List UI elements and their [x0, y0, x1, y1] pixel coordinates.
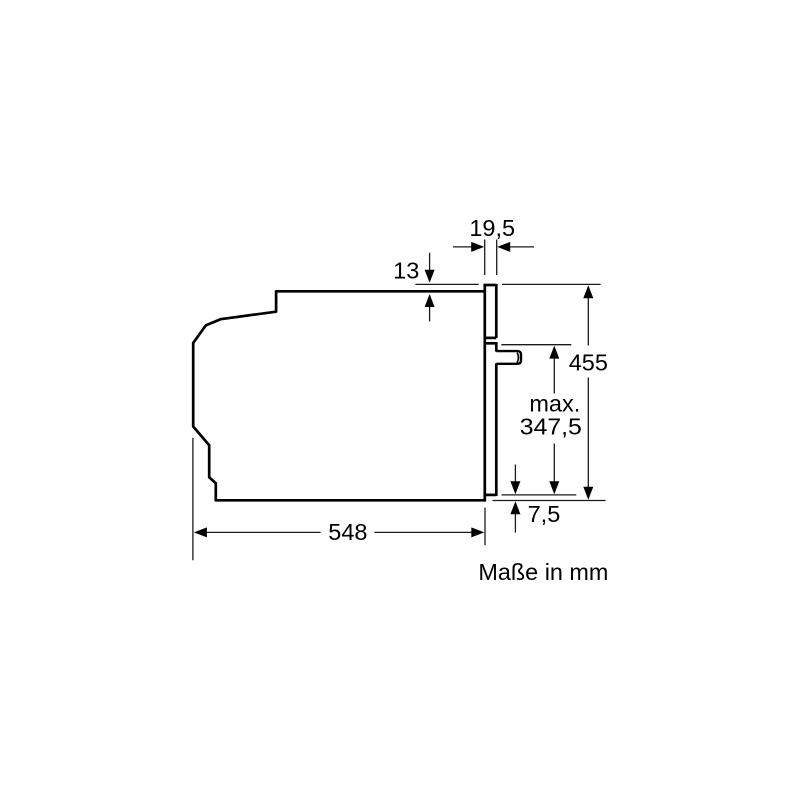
reference line front top right segment	[502, 283, 601, 285]
oven body outline	[193, 291, 486, 500]
arrowhead 7,5 pointing up	[510, 501, 520, 514]
extension line 548 left	[192, 438, 194, 561]
arrowhead 347,5 pointing up	[549, 346, 559, 359]
front panel upper section bottom edge	[484, 337, 497, 340]
extension line door bottom	[502, 494, 577, 496]
body right edge / front panel left edge	[483, 284, 486, 502]
door right edge upper segment	[495, 342, 498, 352]
dimension 7,5 lower arrow shaft	[514, 513, 516, 533]
reference line front top left segment	[415, 283, 478, 285]
dimension line 347,5 lower shaft	[553, 444, 555, 483]
dimension line 347,5 upper shaft	[553, 358, 555, 394]
arrowhead 19,5 left pointing right	[471, 242, 484, 252]
svg-text:548: 548	[328, 519, 367, 545]
extension line 19,5 right	[496, 240, 498, 276]
arrowhead 13 pointing down	[425, 270, 435, 283]
arrowhead 548 pointing left	[194, 527, 207, 537]
dimension 13 upper arrow shaft	[429, 253, 431, 271]
dimension 13 lower arrow shaft	[429, 305, 431, 322]
arrowhead 347,5 pointing down	[549, 481, 559, 494]
svg-text:455: 455	[569, 350, 608, 376]
door top edge	[484, 342, 497, 345]
arrowhead 7,5 pointing down	[510, 481, 520, 494]
arrowhead 548 pointing right	[471, 527, 484, 537]
extension line body bottom	[493, 500, 606, 502]
dimension line 19,5 right arrow shaft	[509, 246, 534, 248]
arrowhead 13 pointing up	[425, 294, 435, 307]
dimension line 548 left segment	[206, 531, 321, 533]
extension line handle top	[501, 344, 571, 346]
extension line 19,5 left	[484, 240, 486, 276]
svg-text:13: 13	[393, 258, 419, 284]
extension line 548 right	[484, 508, 486, 546]
door right edge lower segment	[495, 363, 498, 496]
svg-text:347,5: 347,5	[520, 413, 582, 439]
arrowhead 455 pointing down	[583, 487, 593, 500]
front panel upper right edge	[495, 284, 498, 338]
svg-text:Maße in mm: Maße in mm	[478, 559, 608, 585]
handle end cap inner arc	[517, 353, 518, 363]
front panel top edge	[484, 284, 497, 287]
arrowhead 19,5 right pointing left	[497, 242, 510, 252]
dimension line 19,5 left arrow shaft	[453, 246, 473, 248]
svg-text:7,5: 7,5	[528, 501, 561, 527]
dimension line 455 lower shaft	[587, 378, 589, 489]
svg-text:19,5: 19,5	[469, 215, 515, 241]
arrowhead 455 pointing up	[583, 285, 593, 298]
dimension 7,5 upper arrow shaft	[514, 465, 516, 483]
dimension line 455 upper shaft	[587, 297, 589, 346]
door bottom edge	[484, 494, 497, 497]
door handle	[496, 351, 521, 364]
dimension line 548 right segment	[374, 531, 472, 533]
